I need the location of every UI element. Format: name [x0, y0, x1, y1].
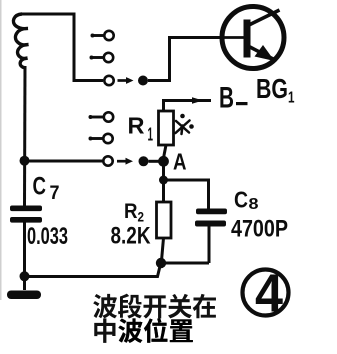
svg-text:8: 8 [249, 196, 259, 213]
caption line 1: 波段开关在 [93, 294, 216, 319]
transistor collector [248, 10, 280, 26]
svg-text:8.2K: 8.2K [111, 223, 152, 250]
wire: node A branch to C8 top [164, 180, 209, 209]
inductor L1 (antenna coil) [13, 14, 28, 68]
wire: C7 bottom to ground [23, 223, 26, 291]
svg-text:1: 1 [148, 125, 154, 145]
svg-text:C: C [234, 187, 248, 213]
ground symbol [7, 291, 41, 300]
scan edge [0, 0, 2, 300]
transistor base bar [244, 20, 251, 58]
switch S1 wiper arrow [118, 76, 149, 86]
svg-text:R: R [124, 199, 138, 223]
svg-text:7: 7 [50, 183, 60, 204]
capacitor C8 plates [196, 209, 227, 215]
wire: node A down to R2 [162, 161, 165, 202]
svg-text:R: R [128, 113, 145, 139]
svg-text:B: B [219, 82, 234, 115]
svg-text:0.033: 0.033 [27, 223, 68, 250]
svg-text:A: A [173, 149, 187, 175]
wire: R1 bottom to node A [164, 145, 166, 157]
node A junction dot [158, 156, 169, 167]
switch S2 wiper arrow [117, 156, 149, 166]
switch S2 contact 2 lead [90, 137, 104, 140]
switch S1 contact circles [104, 31, 114, 85]
asterisk mark [176, 121, 190, 135]
svg-text:C: C [33, 173, 47, 201]
bottom junction dot [156, 258, 166, 268]
capacitor C7 plates [10, 206, 42, 212]
rail junction dot (left, bottom) [20, 271, 30, 281]
resistor R2 body [157, 202, 172, 238]
caption line 2: 中波位置 [94, 318, 193, 343]
switch S1 contact 2 lead [91, 56, 104, 59]
wire: rail to switch S2 pole [25, 160, 104, 163]
wire: S2 wiper to node A [149, 160, 160, 163]
wire: left rail down to C7 [23, 66, 27, 206]
wire: bottom rail [25, 264, 161, 277]
wire: S1 wiper to transistor base [148, 38, 225, 81]
wire: C8 bottom lead [208, 227, 211, 264]
minus sign after B [236, 102, 248, 105]
wire: bottom junction to C8 [161, 262, 209, 265]
wire: R2 bottom lead [161, 238, 163, 263]
switch S1 contact 1 lead [90, 36, 104, 139]
transistor BG1 circle [222, 7, 284, 69]
svg-text:4: 4 [255, 264, 283, 324]
arrow on B lead [192, 97, 203, 104]
svg-text:4700P: 4700P [231, 216, 288, 243]
figure number circle 4 [243, 270, 289, 316]
lead end ticks [89, 34, 95, 141]
transistor emitter with arrow [248, 46, 274, 60]
junction dot below A [159, 176, 168, 185]
rail junction dot (left, at S2 pole) [20, 156, 30, 166]
switch S2 contact circles [103, 112, 113, 165]
wire: B lead from R1 top [164, 101, 212, 112]
svg-text:1: 1 [288, 90, 295, 107]
switch S2 contact 1 lead [90, 116, 104, 119]
wire: coil top to switch S1 contact 3 [21, 14, 103, 81]
transistor base lead inside [224, 36, 245, 39]
svg-text:BG: BG [256, 73, 288, 104]
resistor R1 body [159, 111, 174, 145]
